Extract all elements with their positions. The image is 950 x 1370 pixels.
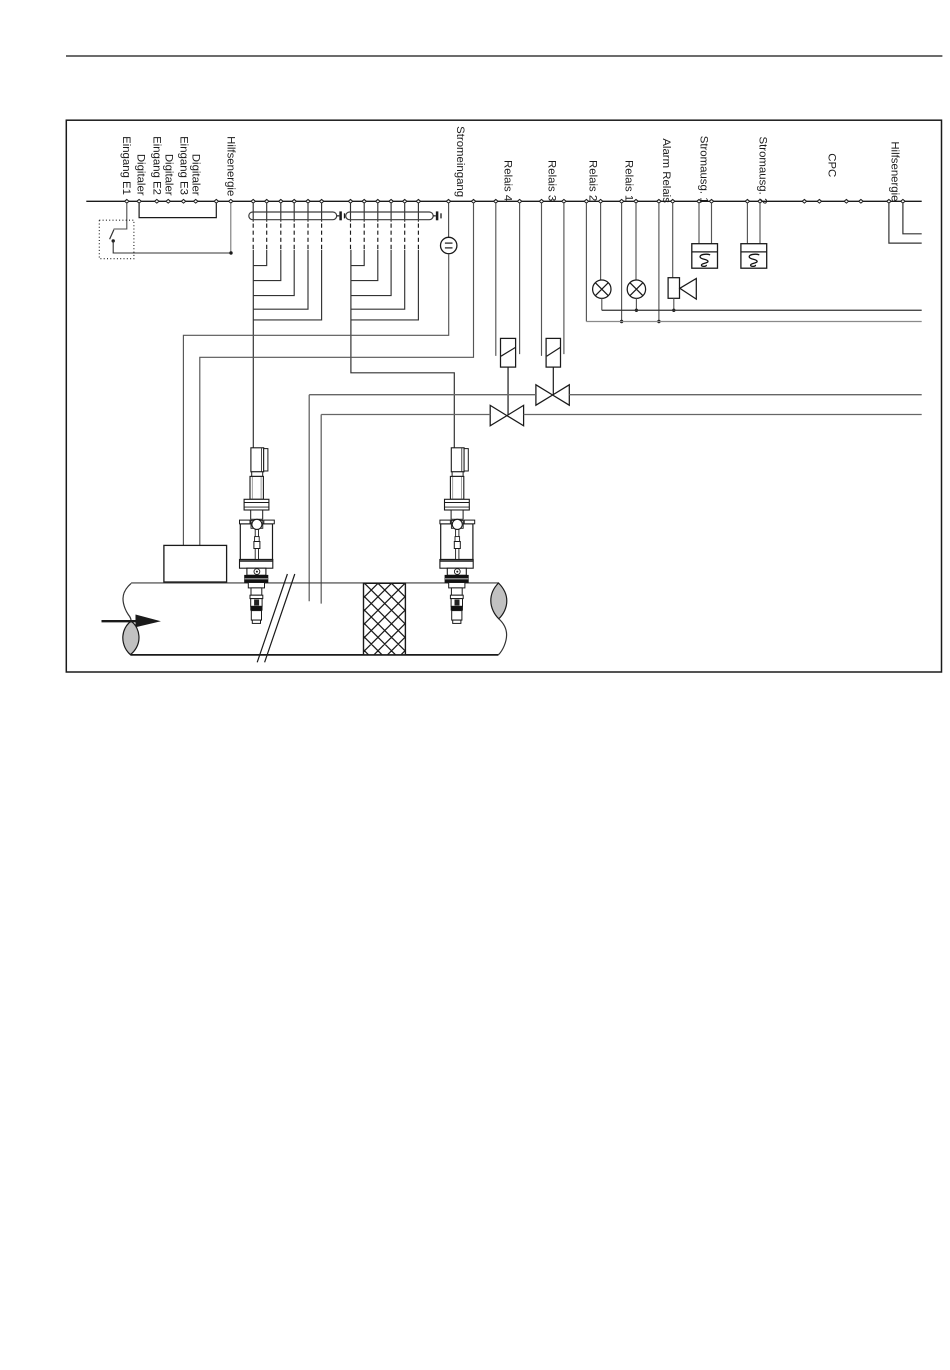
- pipe right end wall section: [491, 583, 507, 619]
- switch arm: [110, 230, 114, 240]
- wire Relais 1 a: [621, 203, 623, 321]
- svg-text:Stromausg. 2: Stromausg. 2: [756, 137, 768, 205]
- flow arrow: [102, 620, 138, 622]
- sensor cable 2 conductor drops: [351, 203, 419, 222]
- shield ground 1: [337, 215, 340, 217]
- wire Relais 2 lamp bottom: [601, 298, 603, 310]
- svg-text:Digitaler: Digitaler: [134, 154, 146, 196]
- svg-text:Relais 2: Relais 2: [587, 160, 599, 201]
- wires Stromausg. 2: [747, 203, 760, 243]
- cable shield oval 1: [249, 212, 337, 220]
- junction dot Alarm b: [672, 309, 675, 312]
- svg-text:Eingang E1: Eingang E1: [120, 136, 132, 195]
- pipe line upper: [309, 395, 922, 602]
- pipe left end cut curve: [123, 583, 131, 621]
- stem Relais 4: [507, 367, 509, 416]
- wire Alarm b: [672, 203, 674, 277]
- digital common bracket: [139, 203, 216, 217]
- terminal bus wire: [86, 200, 921, 202]
- wires Relais 4: [496, 203, 520, 356]
- diagram frame: [66, 120, 941, 672]
- lamp Relais 2: [593, 280, 611, 298]
- pipe top edge: [131, 582, 498, 584]
- wire Hilfsenergie N: [903, 203, 922, 234]
- svg-text:Relais 4: Relais 4: [502, 160, 514, 201]
- svg-text:Stromausg. 1: Stromausg. 1: [697, 136, 709, 204]
- wires Relais 3: [542, 203, 564, 356]
- junction dot Alarm a: [657, 320, 660, 323]
- svg-text:CPC: CPC: [825, 153, 837, 177]
- sensor probe assembly 2: [440, 448, 475, 624]
- svg-text:Stromeingang: Stromeingang: [454, 126, 466, 197]
- common line 1: [602, 309, 922, 311]
- wire Relais 1 lamp bottom: [635, 298, 637, 310]
- wire Hilfsenergie drop: [230, 203, 232, 253]
- wire to DC source: [448, 203, 450, 237]
- pipe right end cut curve: [498, 619, 506, 655]
- wire DC source to junction box: [183, 254, 448, 546]
- output module Stromausg. 2: [741, 244, 767, 269]
- switch pivot dot: [112, 239, 115, 242]
- pipe line lower: [321, 415, 922, 604]
- solenoid actuator Relais 3: [546, 338, 560, 367]
- lamp Relais 1: [627, 280, 645, 298]
- junction dot Relais 1: [635, 309, 638, 312]
- svg-text:Digitaler: Digitaler: [162, 154, 174, 196]
- wire E1 to switch: [114, 203, 127, 229]
- common line 2: [586, 321, 921, 323]
- sensor cable 1 conductors (dashed): [253, 224, 321, 250]
- junction dot switch/Hilfsenergie: [229, 251, 232, 254]
- svg-text:Alarm Relais: Alarm Relais: [660, 138, 672, 203]
- wire Hilfsenergie L: [889, 203, 922, 243]
- output module Stromausg. 1: [692, 244, 718, 269]
- valve Relais 3: [536, 385, 569, 405]
- wire switch to Hilfsenergie: [113, 241, 231, 253]
- stem Relais 3: [552, 367, 554, 395]
- svg-text:Relais 1: Relais 1: [622, 160, 634, 201]
- sensor cable 2 bundle: [351, 250, 454, 448]
- header rule: [66, 55, 942, 57]
- junction dot Relais 1: [620, 320, 623, 323]
- sensor probe assembly 1: [240, 448, 275, 624]
- cable shield oval 2: [346, 212, 434, 220]
- pipe break lines: [257, 574, 295, 662]
- wire Relais 1 b: [635, 203, 637, 280]
- wire Relais 2 b: [600, 203, 602, 280]
- svg-text:Eingang E3: Eingang E3: [178, 136, 190, 195]
- svg-text:Eingang E2: Eingang E2: [150, 136, 162, 195]
- sensor cable 1 conductor drops: [253, 203, 321, 222]
- wire Alarm horn bottom: [673, 298, 675, 310]
- wire Stromeingang return: [200, 203, 474, 545]
- solenoid actuator Relais 4: [501, 338, 516, 367]
- svg-text:Hilfsenergie: Hilfsenergie: [225, 136, 237, 196]
- svg-text:Hilfsenergie: Hilfsenergie: [889, 141, 901, 201]
- shield ground 2: [433, 215, 436, 217]
- wires Stromausg. 1: [699, 203, 712, 243]
- sensor cable 1 bundle: [252, 250, 254, 448]
- dotted switch enclosure: [99, 220, 134, 259]
- pipe bottom edge: [131, 654, 499, 656]
- svg-text:Relais 3: Relais 3: [546, 160, 558, 201]
- sensor cable 2 conductor steps: [351, 250, 419, 320]
- sensor cable 2 conductors (dashed): [351, 224, 419, 250]
- svg-text:Digitaler: Digitaler: [189, 154, 201, 196]
- alarm horn: [668, 278, 679, 299]
- junction box: [164, 545, 227, 582]
- valve Relais 4: [490, 405, 523, 425]
- pipe left end wall section: [123, 621, 139, 654]
- sensor cable 1 conductor steps: [253, 250, 321, 320]
- DC source symbol: [441, 237, 457, 253]
- wire Alarm a: [658, 203, 660, 321]
- wire Relais 2 a: [585, 203, 587, 321]
- terminal diamonds: [125, 199, 906, 203]
